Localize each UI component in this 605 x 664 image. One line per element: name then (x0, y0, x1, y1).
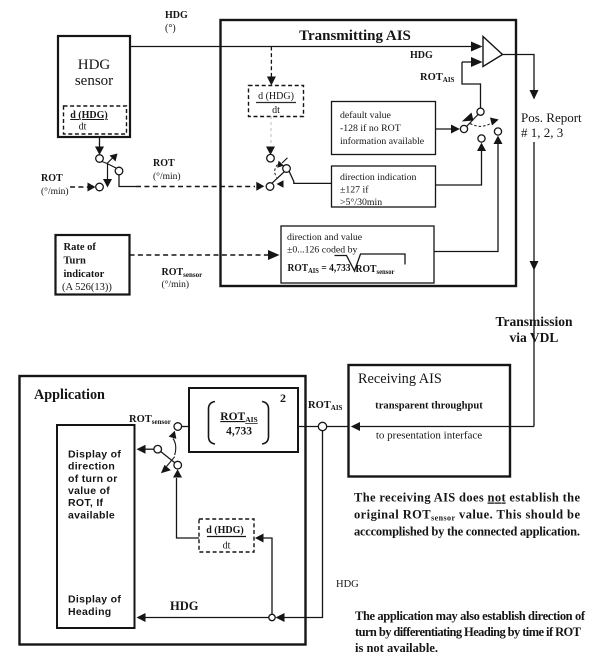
svg-text:Transmission: Transmission (495, 314, 573, 329)
S3 movement arc with up arrow (173, 439, 176, 456)
svg-text:is not available.: is not available. (355, 641, 438, 655)
svg-text:sensor: sensor (75, 73, 113, 89)
switch S1 below HDG sensor (88, 137, 137, 192)
S2 movement arc (275, 165, 278, 178)
wire S3 middle to display box (145, 448, 154, 450)
wire dashed HDG tap down to d(HDG)/dt (270, 47, 272, 78)
svg-text:Turn: Turn (64, 256, 87, 267)
wire HDG from sensor to triangle (130, 46, 473, 48)
S3 crossing line with down-left arrow (167, 457, 175, 467)
svg-text:ROT, If: ROT, If (68, 497, 104, 509)
wire S1 output down then right (119, 175, 136, 187)
svg-text:Display of: Display of (68, 448, 121, 460)
switch S3 in application (137, 423, 190, 474)
S2 movement arrow near B (282, 158, 288, 163)
box d(HDG)/dt in application (dashed) (199, 519, 254, 552)
S2 contact circle A top (267, 154, 275, 162)
bracket left (209, 402, 216, 445)
svg-text:Application: Application (34, 387, 105, 403)
svg-text:via VDL: via VDL (510, 330, 559, 345)
S3 contact circle top (174, 423, 182, 431)
svg-text:Display of: Display of (68, 594, 121, 606)
svg-text:Pos. Report: Pos. Report (521, 110, 582, 125)
svg-text:HDG: HDG (170, 599, 199, 613)
op-amp style combiner triangle (483, 37, 503, 67)
svg-text:of turn or: of turn or (68, 473, 118, 485)
paragraph 1 (354, 491, 580, 539)
S2 lever C to B (272, 172, 285, 184)
node HDG junction (269, 614, 275, 620)
wire dashed ROT_sensor to direction and value box (130, 254, 269, 256)
S3 contact circle bottom (174, 461, 182, 469)
svg-text:Heading: Heading (68, 606, 112, 618)
box Rate of Turn indicator (56, 235, 130, 295)
svg-text:±127 if: ±127 if (340, 185, 369, 196)
svg-text:ROT: ROT (41, 173, 63, 184)
svg-text:turn by differentiating Headin: turn by differentiating Heading by time … (355, 625, 582, 639)
svg-text:direction indication: direction indication (340, 172, 417, 183)
wire dashed ROT bus to switch S2 (136, 186, 255, 188)
arrow into S1 from sensor (99, 137, 101, 147)
svg-text:default value: default value (340, 110, 392, 121)
svg-text:HDG: HDG (410, 50, 433, 61)
svg-text:direction: direction (68, 461, 115, 473)
box Application (20, 376, 306, 645)
svg-text:# 1, 2, 3: # 1, 2, 3 (521, 125, 563, 140)
svg-text:>5°/30min: >5°/30min (340, 197, 382, 208)
svg-text:HDG: HDG (78, 57, 111, 73)
wire VDL down-left through receiving AIS (360, 426, 534, 428)
wire ROT_AIS elbow into triangle (462, 62, 481, 108)
svg-text:d (HDG): d (HDG) (206, 525, 244, 536)
wire direction indication box to M with arrow (436, 149, 482, 185)
arrow into S2 C from dashed ROT bus (256, 182, 264, 191)
box direction indication (332, 166, 436, 207)
svg-text:ROT: ROT (153, 158, 175, 169)
svg-text:available: available (68, 509, 115, 521)
svg-text:(°): (°) (165, 23, 176, 34)
S2 contact circle B right (283, 165, 291, 173)
wire default value box to L with arrow (436, 128, 453, 130)
svg-text:The receiving AIS does not est: The receiving AIS does not establish the (354, 491, 580, 505)
wire HDG node to display box (145, 617, 269, 619)
box [ROT_AIS/4,733]^2 (189, 388, 298, 452)
svg-text:value of: value of (68, 485, 110, 497)
S1 contact circle bottom-left (96, 183, 104, 191)
bracket right (262, 402, 269, 445)
selector movement dashed arc (470, 122, 493, 127)
rotary selector in transmitting AIS (434, 108, 503, 251)
svg-text:original ROTsensor value. This: original ROTsensor value. This should be (354, 508, 580, 523)
svg-text:(A 526(13)): (A 526(13)) (62, 282, 112, 293)
box direction and value (281, 226, 434, 283)
svg-text:dt: dt (79, 122, 87, 133)
svg-text:-128 if no ROT: -128 if no ROT (340, 123, 401, 134)
switch S2 in transmitting AIS (256, 154, 331, 190)
box Transmitting AIS (221, 20, 517, 286)
selector contact circle M (478, 135, 485, 142)
svg-text:±0...126 coded by: ±0...126 coded by (287, 245, 358, 256)
svg-text:acccomplished by the connected: acccomplished by the connected applicati… (354, 525, 580, 539)
svg-text:HDG: HDG (165, 10, 188, 21)
svg-text:(°/min): (°/min) (41, 186, 69, 197)
svg-text:Receiving AIS: Receiving AIS (358, 371, 442, 387)
S1 lever lines (102, 162, 107, 164)
node ROT_AIS junction (318, 422, 326, 430)
S3 lever middle to bottom (161, 452, 175, 463)
wire direction and value box to N with arrow (434, 142, 498, 252)
wire box to receiving AIS with node (298, 426, 349, 428)
svg-text:4,733: 4,733 (226, 426, 252, 438)
selector common circle T (477, 108, 484, 115)
box Receiving AIS (349, 365, 511, 477)
svg-text:indicator: indicator (64, 269, 105, 280)
selector contact circle N (494, 128, 501, 135)
arrow into S1 bottom-left contact (88, 183, 96, 192)
box HDG sensor (58, 36, 130, 137)
svg-text:The application may also estab: The application may also establish direc… (355, 609, 586, 623)
wire node down to HDG row (284, 431, 323, 618)
svg-text:d (HDG): d (HDG) (70, 110, 108, 121)
wire HDG node up to d(HDG)/dt app box (256, 538, 272, 614)
selector lever T to L (467, 115, 479, 127)
wire transmission via VDL vertical (533, 142, 535, 427)
svg-text:transparent throughput: transparent throughput (375, 401, 483, 412)
svg-text:d (HDG): d (HDG) (258, 91, 294, 102)
paragraph 2 (355, 609, 586, 655)
svg-text:HDG: HDG (336, 579, 359, 590)
S1 contact circle top (96, 155, 104, 163)
wire S3 top circle to ROT box (182, 426, 189, 428)
wire faint dashed from d(HDG)/dt down to switch (270, 116, 272, 146)
S2 arrow pointing left into C from right (277, 180, 284, 188)
wire dashed ROT into S1 (70, 186, 88, 188)
wire d(HDG)/dt app output to switch S3 (177, 478, 200, 538)
box Display (57, 425, 135, 628)
svg-text:2: 2 (280, 391, 286, 405)
S1 contact circle right (115, 167, 123, 175)
svg-text:information available: information available (340, 136, 425, 147)
wire triangle output to Pos. Report (503, 55, 535, 91)
box default value (332, 102, 436, 155)
selector contact circle L (460, 125, 467, 132)
selector movement arrow (down-left) (462, 113, 474, 122)
svg-text:direction and value: direction and value (287, 232, 363, 243)
svg-text:(°/min): (°/min) (162, 279, 190, 290)
box d(HDG)/dt inside HDG sensor (dashed) (64, 106, 127, 134)
S3 contact circle middle (154, 445, 162, 453)
svg-text:dt: dt (223, 541, 231, 552)
svg-text:ROTAIS = 4,733: ROTAIS = 4,733 (288, 262, 351, 275)
box d(HDG)/dt in transmitting AIS (dashed) (249, 86, 304, 117)
svg-text:Rate of: Rate of (64, 242, 97, 253)
svg-text:to presentation interface: to presentation interface (376, 430, 482, 442)
S2 contact circle C bottom (266, 183, 274, 191)
svg-text:Transmitting AIS: Transmitting AIS (299, 28, 411, 44)
svg-text:dt: dt (272, 105, 280, 116)
wire S2 output to direction indication box (289, 172, 331, 184)
svg-text:(°/min): (°/min) (153, 171, 181, 182)
